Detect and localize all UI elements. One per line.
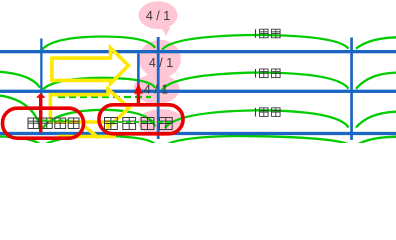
svg-text:4 / 1: 4 / 1 — [146, 9, 170, 23]
svg-text:4 / 1: 4 / 1 — [144, 83, 168, 97]
svg-text:4 / 1: 4 / 1 — [149, 56, 173, 70]
